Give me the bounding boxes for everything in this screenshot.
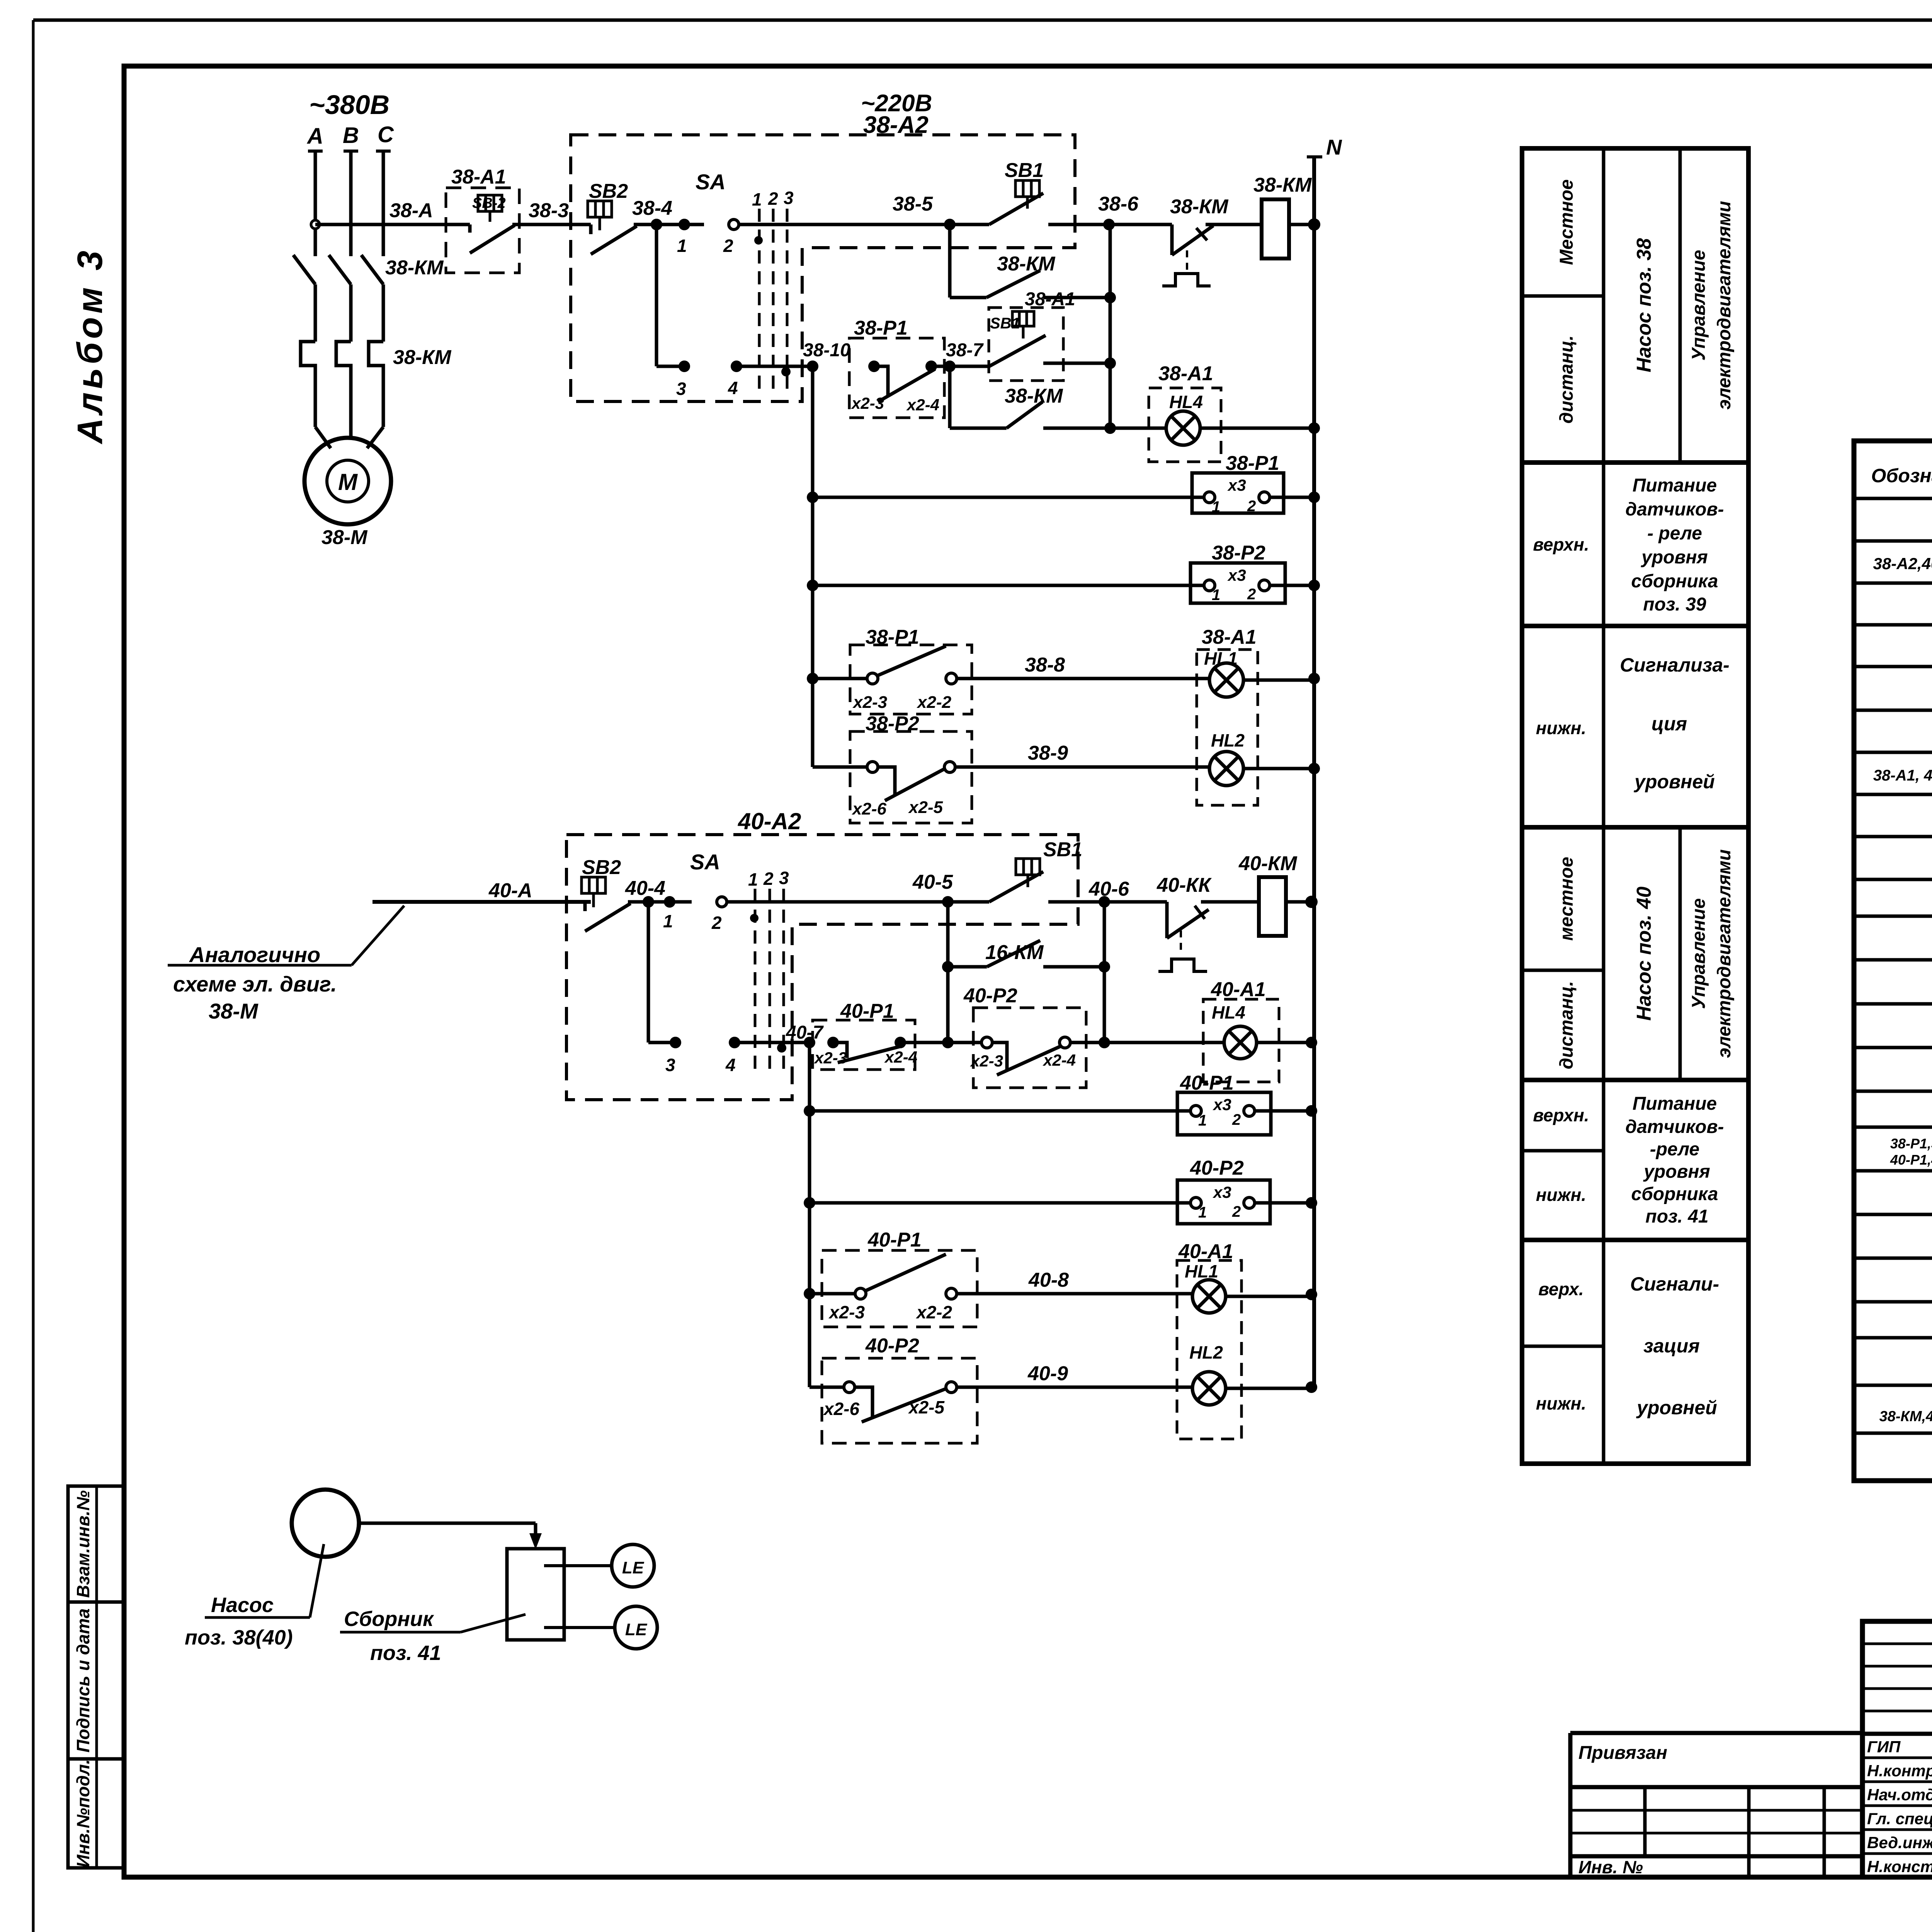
svg-text:- реле: - реле bbox=[1647, 523, 1702, 544]
level relay contact 40-P1 (signal row 40-8) bbox=[804, 1229, 977, 1327]
album label Альбом 3 bbox=[70, 247, 110, 444]
svg-text:В: В bbox=[343, 123, 359, 148]
svg-text:38-КМ: 38-КМ bbox=[393, 346, 452, 369]
svg-text:40-5: 40-5 bbox=[912, 871, 953, 893]
svg-text:верх.: верх. bbox=[1538, 1279, 1584, 1299]
svg-text:1: 1 bbox=[1198, 1204, 1207, 1221]
parts row Пост управления ПКУ 15-21,131-54У2 bbox=[1873, 552, 1932, 573]
svg-text:40-6: 40-6 bbox=[1088, 878, 1129, 900]
function table row: Питание датчиков-реле уровня сборника поз.39 bbox=[1533, 475, 1724, 615]
phase B wire bbox=[349, 151, 353, 256]
wire 38-A bbox=[315, 199, 446, 224]
svg-text:уровня: уровня bbox=[1641, 547, 1708, 568]
svg-text:датчиков-: датчиков- bbox=[1626, 499, 1724, 520]
lamp HL2 (40) bbox=[1189, 1342, 1317, 1405]
svg-text:x2-3: x2-3 bbox=[828, 1302, 865, 1322]
pushbutton SB1 (start) bbox=[950, 159, 1109, 224]
aux contact 38-KM (lamp circuit) bbox=[950, 366, 1116, 434]
svg-text:40-9: 40-9 bbox=[1027, 1362, 1068, 1385]
node 40-6 bbox=[1088, 878, 1129, 908]
function table row: Сигнализация уровней (40) bbox=[1522, 1273, 1719, 1418]
svg-text:3: 3 bbox=[784, 188, 794, 208]
svg-text:уровня: уровня bbox=[1643, 1162, 1710, 1182]
svg-text:схеме эл. двиг.: схеме эл. двиг. bbox=[173, 972, 337, 996]
svg-text:2: 2 bbox=[768, 189, 778, 209]
control box 40-A2 (L-shape dashed) bbox=[566, 808, 1078, 1100]
title block signatures bbox=[1867, 1738, 1932, 1876]
svg-text:38-Р1: 38-Р1 bbox=[854, 317, 908, 339]
pump circle bbox=[292, 1490, 359, 1557]
contactor 38-KM main contacts bbox=[293, 255, 444, 342]
parts row Датчик-реле уровня РОС101-011 bbox=[1890, 1136, 1932, 1168]
svg-text:LE: LE bbox=[622, 1558, 645, 1577]
lamp box 38-A1 (HL1,HL2) bbox=[1197, 626, 1258, 805]
svg-text:40-Р2: 40-Р2 bbox=[963, 985, 1017, 1007]
svg-text:Сборник: Сборник bbox=[344, 1607, 434, 1631]
svg-text:x2-3: x2-3 bbox=[814, 1049, 847, 1067]
contactor coil 40-KM bbox=[1238, 852, 1318, 936]
svg-text:2: 2 bbox=[1247, 498, 1256, 515]
svg-text:дистанц.: дистанц. bbox=[1556, 981, 1577, 1069]
svg-text:нижн.: нижн. bbox=[1536, 1393, 1586, 1413]
svg-text:верхн.: верхн. bbox=[1533, 534, 1589, 554]
svg-text:уровней: уровней bbox=[1633, 771, 1715, 793]
svg-text:38-КМ: 38-КМ bbox=[385, 257, 444, 279]
svg-text:сборника: сборника bbox=[1631, 1184, 1718, 1204]
pushbutton SB-2 contact bbox=[446, 195, 519, 253]
svg-text:40-А1: 40-А1 bbox=[1211, 978, 1266, 1001]
svg-text:16-КМ: 16-КМ bbox=[985, 941, 1044, 964]
svg-text:Местное: Местное bbox=[1556, 179, 1577, 265]
svg-text:38-9: 38-9 bbox=[1028, 742, 1068, 764]
svg-text:Насос поз. 40: Насос поз. 40 bbox=[1633, 886, 1655, 1020]
svg-text:Насос поз. 38: Насос поз. 38 bbox=[1633, 238, 1655, 372]
svg-text:1: 1 bbox=[1212, 498, 1220, 515]
svg-text:x2-2: x2-2 bbox=[917, 693, 952, 712]
svg-text:Взам.инв.№: Взам.инв.№ bbox=[73, 1490, 93, 1598]
svg-text:ция: ция bbox=[1651, 713, 1687, 735]
parts row Пост управления ПКУ15-21,2,31-54У2 bbox=[1873, 763, 1932, 785]
svg-text:38-Р2: 38-Р2 bbox=[1212, 542, 1265, 564]
svg-text:38-А1: 38-А1 bbox=[1202, 626, 1257, 648]
svg-text:38-А1: 38-А1 bbox=[451, 166, 506, 188]
lamp box 40-A1 (HL1,HL2) bbox=[1177, 1240, 1242, 1439]
svg-text:Сигнализа-: Сигнализа- bbox=[1620, 654, 1730, 676]
svg-text:LE: LE bbox=[625, 1620, 648, 1639]
svg-text:Насос: Насос bbox=[211, 1594, 274, 1617]
node 38-10 bbox=[803, 340, 850, 372]
svg-text:А: А bbox=[306, 124, 323, 149]
level sensor LE lower bbox=[544, 1606, 657, 1649]
parts row Пускатель магнитный ПМЛ122002 bbox=[1879, 1401, 1932, 1425]
svg-text:SB2: SB2 bbox=[589, 180, 628, 202]
selector SA contact 3-4 branch bbox=[656, 224, 813, 399]
svg-text:Привязан: Привязан bbox=[1578, 1743, 1667, 1763]
svg-text:x2-6: x2-6 bbox=[852, 799, 887, 818]
svg-text:38-Р1: 38-Р1 bbox=[1226, 452, 1279, 474]
aux contact 38-KM self-hold bbox=[950, 224, 1116, 303]
svg-text:x2-2: x2-2 bbox=[915, 1302, 952, 1322]
svg-text:датчиков-: датчиков- bbox=[1626, 1117, 1724, 1137]
lamp HL2 (38) bbox=[1209, 730, 1320, 786]
node 38-6 bbox=[1098, 193, 1139, 230]
aux contact 16-KM bbox=[942, 902, 1110, 1043]
svg-text:40-Р2: 40-Р2 bbox=[1190, 1157, 1244, 1179]
title block frame bbox=[1862, 1621, 1932, 1877]
svg-text:х3: х3 bbox=[1213, 1095, 1231, 1114]
svg-text:40-4: 40-4 bbox=[625, 877, 665, 900]
function table row: Сигнализация уровней (38) bbox=[1536, 654, 1730, 793]
svg-text:зация: зация bbox=[1643, 1335, 1700, 1357]
svg-text:3: 3 bbox=[665, 1055, 675, 1075]
phase C wire bbox=[382, 151, 385, 256]
svg-text:поз. 41: поз. 41 bbox=[1645, 1206, 1708, 1227]
level relay contact 40-P2 (open circles) bbox=[948, 985, 1110, 1088]
svg-text:3: 3 bbox=[676, 379, 686, 399]
plug connector 40-P1 x3 bbox=[804, 1072, 1317, 1135]
svg-text:x2-4: x2-4 bbox=[1043, 1051, 1076, 1069]
svg-text:Управление: Управление bbox=[1689, 898, 1709, 1009]
svg-text:38-А1: 38-А1 bbox=[1158, 362, 1213, 385]
svg-text:х3: х3 bbox=[1213, 1183, 1231, 1201]
svg-text:38-А2: 38-А2 bbox=[863, 112, 929, 138]
svg-text:x2-4: x2-4 bbox=[906, 396, 939, 414]
svg-text:1: 1 bbox=[752, 189, 762, 209]
level sensor LE upper bbox=[544, 1544, 654, 1587]
svg-text:SB1: SB1 bbox=[1005, 159, 1044, 182]
svg-text:1: 1 bbox=[663, 911, 673, 931]
svg-text:дистанц.: дистанц. bbox=[1556, 335, 1577, 423]
tap node on phase A bbox=[311, 220, 320, 229]
svg-text:HL4: HL4 bbox=[1169, 392, 1203, 412]
node 38-7 bbox=[944, 340, 984, 372]
wire 38-4 with SA nodes bbox=[632, 197, 704, 256]
plug connector 38-P2 x3 bbox=[807, 542, 1320, 604]
wire 40-A bbox=[372, 879, 591, 902]
node 38-5 bbox=[893, 193, 956, 230]
left stamp box Подпись и дата bbox=[68, 1602, 124, 1759]
svg-text:1: 1 bbox=[748, 869, 758, 889]
svg-text:38-А: 38-А bbox=[389, 199, 433, 222]
svg-text:x2-6: x2-6 bbox=[823, 1399, 859, 1419]
svg-text:38-5: 38-5 bbox=[893, 193, 933, 215]
svg-text:М: М bbox=[338, 469, 358, 495]
svg-text:Альбом 3: Альбом 3 bbox=[70, 247, 110, 444]
level relay contact 40-P2 (signal row 40-9) bbox=[810, 1294, 977, 1443]
svg-text:Питание: Питание bbox=[1633, 475, 1717, 496]
svg-text:2: 2 bbox=[723, 236, 733, 256]
svg-text:x2-3: x2-3 bbox=[852, 693, 887, 712]
svg-text:местное: местное bbox=[1556, 857, 1577, 940]
svg-text:3: 3 bbox=[779, 868, 789, 888]
svg-text:4: 4 bbox=[725, 1055, 736, 1075]
svg-text:нижн.: нижн. bbox=[1536, 718, 1586, 738]
pushbutton SB1 (40 start) bbox=[948, 838, 1104, 902]
function table row: Насос поз.40 / Управление электродвигателями bbox=[1522, 827, 1735, 1080]
svg-text:электродвигателями: электродвигателями bbox=[1714, 201, 1735, 410]
svg-text:Инв.№подл.: Инв.№подл. bbox=[73, 1759, 93, 1867]
svg-text:SB2: SB2 bbox=[582, 856, 621, 879]
svg-text:x2-5: x2-5 bbox=[908, 1397, 945, 1417]
motor 38-M bbox=[304, 438, 391, 549]
wires converging to motor bbox=[315, 427, 383, 448]
svg-text:40-8: 40-8 bbox=[1028, 1269, 1069, 1291]
contactor coil 38-KM bbox=[1253, 174, 1314, 259]
thermal contact 38-KM bbox=[1109, 196, 1262, 286]
svg-text:38-3: 38-3 bbox=[529, 199, 569, 222]
svg-text:2: 2 bbox=[711, 913, 722, 933]
plug connector 38-P1 x3 bbox=[807, 452, 1320, 515]
collector tank поз.41 bbox=[507, 1549, 564, 1640]
lamp HL1 (40) bbox=[1185, 1261, 1317, 1313]
svg-text:Питание: Питание bbox=[1633, 1094, 1717, 1114]
svg-text:Вед.инж.: Вед.инж. bbox=[1867, 1833, 1932, 1852]
svg-text:38-6: 38-6 bbox=[1098, 193, 1139, 215]
svg-text:SB1: SB1 bbox=[990, 315, 1020, 332]
lamp HL4 (38) bbox=[1110, 362, 1320, 462]
svg-text:38-8: 38-8 bbox=[1025, 654, 1065, 676]
wire 40-4 with SA nodes bbox=[625, 877, 692, 931]
lamp HL4 (40) bbox=[1104, 978, 1317, 1082]
svg-text:x2-3: x2-3 bbox=[970, 1052, 1003, 1070]
svg-text:HL4: HL4 bbox=[1212, 1002, 1245, 1022]
svg-text:Инв. №: Инв. № bbox=[1578, 1857, 1643, 1877]
phase A wire bbox=[314, 151, 317, 256]
svg-text:HL2: HL2 bbox=[1189, 1342, 1223, 1362]
svg-text:38-7: 38-7 bbox=[946, 340, 984, 361]
svg-text:38-М: 38-М bbox=[321, 526, 368, 549]
neutral rail N bbox=[1307, 135, 1342, 1388]
lamp HL1 (38) bbox=[1204, 648, 1320, 697]
parts table frame bbox=[1854, 441, 1932, 1481]
svg-text:N: N bbox=[1326, 135, 1342, 159]
control station box 38-A1 (SB-2) bbox=[446, 166, 519, 273]
svg-text:40-КК: 40-КК bbox=[1156, 874, 1212, 896]
control box 38-A1 second (SB1 remote) bbox=[989, 289, 1075, 381]
svg-text:Гл. спец.: Гл. спец. bbox=[1867, 1810, 1932, 1828]
cable cores 1 2 3 (40) bbox=[748, 868, 789, 1072]
left stamp box Взам.инв.№ bbox=[68, 1486, 124, 1602]
thermal overload elements 38-KM bbox=[301, 342, 452, 427]
svg-text:2: 2 bbox=[763, 869, 774, 889]
phase labels A B C bbox=[306, 122, 394, 149]
svg-text:С: С bbox=[378, 122, 394, 147]
label Насос поз.38(40) bbox=[185, 1544, 324, 1649]
svg-text:поз. 38(40): поз. 38(40) bbox=[185, 1626, 293, 1649]
svg-text:Н.контр: Н.контр bbox=[1867, 1762, 1932, 1780]
label Сборник поз.41 bbox=[340, 1607, 526, 1665]
svg-text:38-КМ: 38-КМ bbox=[1005, 385, 1063, 407]
svg-text:2: 2 bbox=[1247, 586, 1256, 603]
svg-text:х3: х3 bbox=[1227, 476, 1246, 494]
svg-text:1: 1 bbox=[677, 236, 687, 256]
level relay contact 38-P1 (x2-3/x2-4) bbox=[849, 317, 950, 418]
svg-text:SB1: SB1 bbox=[1043, 838, 1082, 861]
svg-text:38-КМ,40-КМ: 38-КМ,40-КМ bbox=[1879, 1408, 1932, 1425]
svg-text:Н.констр.: Н.констр. bbox=[1867, 1857, 1932, 1876]
level relay contact 38-P2 (signal row 38-9) bbox=[813, 679, 972, 823]
selector SA contact 3-4 branch (40) bbox=[648, 902, 810, 1075]
right node rail (38) bbox=[1109, 224, 1112, 428]
svg-text:поз. 41: поз. 41 bbox=[370, 1641, 441, 1665]
supply label ~380В bbox=[309, 90, 389, 120]
svg-text:1: 1 bbox=[1212, 587, 1220, 604]
svg-text:ГИП: ГИП bbox=[1867, 1738, 1901, 1756]
svg-text:40-КМ: 40-КМ bbox=[1238, 852, 1298, 875]
selector SA contact 1-2 bbox=[696, 170, 950, 256]
svg-text:Обознач.: Обознач. bbox=[1871, 465, 1932, 486]
svg-text:40-А2: 40-А2 bbox=[738, 808, 801, 834]
parts table header bbox=[1871, 461, 1932, 486]
svg-text:40-А: 40-А bbox=[488, 879, 532, 902]
cable cores 1 2 3 bbox=[752, 188, 794, 395]
svg-text:Аналогично: Аналогично bbox=[189, 942, 320, 967]
wire 38-8 to lamp HL1 bbox=[957, 654, 1209, 679]
pushbutton SB2 (40 stop) bbox=[582, 856, 648, 931]
wire 38-3 bbox=[519, 199, 591, 224]
svg-text:Подпись и дата: Подпись и дата bbox=[73, 1609, 93, 1753]
svg-text:x2-5: x2-5 bbox=[908, 798, 943, 817]
svg-text:38-4: 38-4 bbox=[632, 197, 672, 219]
svg-text:38-КМ: 38-КМ bbox=[1170, 196, 1229, 218]
svg-text:40-Р2: 40-Р2 bbox=[865, 1335, 919, 1357]
svg-text:электродвигателями: электродвигателями bbox=[1714, 849, 1735, 1058]
phase terminal ticks bbox=[308, 150, 391, 153]
pipe wire to collector bbox=[359, 1523, 542, 1549]
function table row: Насос поз.38 / Управление электродвигателями bbox=[1522, 148, 1735, 463]
level relay contact 40-P1 (x2-3/x2-4) bbox=[813, 1000, 948, 1070]
left stamp box Инв.№подл. bbox=[68, 1759, 124, 1868]
right node rail (40) bbox=[1103, 902, 1106, 1043]
svg-text:38-Р1,38-Р2: 38-Р1,38-Р2 bbox=[1890, 1136, 1932, 1151]
wire 38-9 to lamp HL2 bbox=[955, 742, 1209, 767]
привязан table bbox=[1570, 1733, 1862, 1877]
function table frame bbox=[1522, 148, 1748, 1464]
svg-text:-реле: -реле bbox=[1650, 1139, 1700, 1160]
signal rail from node 40-7 bbox=[808, 1043, 811, 1387]
svg-text:x2-3: x2-3 bbox=[851, 394, 884, 412]
svg-text:нижн.: нижн. bbox=[1536, 1185, 1586, 1205]
svg-text:SA: SA bbox=[696, 170, 726, 194]
svg-text:38-М: 38-М bbox=[209, 999, 259, 1023]
svg-text:Нач.отд.: Нач.отд. bbox=[1867, 1786, 1932, 1804]
svg-text:сборника: сборника bbox=[1631, 571, 1718, 592]
svg-text:2: 2 bbox=[1232, 1203, 1241, 1220]
plug connector 40-P2 x3 bbox=[804, 1157, 1317, 1224]
svg-text:~380В: ~380В bbox=[309, 90, 389, 120]
svg-text:38-А1: 38-А1 bbox=[1025, 289, 1075, 310]
svg-text:HL2: HL2 bbox=[1211, 730, 1245, 750]
svg-text:1: 1 bbox=[1198, 1112, 1207, 1129]
pushbutton SB2 (stop) bbox=[588, 180, 656, 254]
svg-text:x2-4: x2-4 bbox=[884, 1048, 917, 1066]
svg-text:х3: х3 bbox=[1227, 566, 1246, 584]
wire 40-9 to lamp HL2 bbox=[957, 1362, 1192, 1387]
control box 38-A2 (L-shape dashed) bbox=[571, 90, 1075, 401]
svg-text:2: 2 bbox=[1232, 1111, 1241, 1128]
svg-text:4: 4 bbox=[728, 378, 738, 398]
level relay contact 38-P1 (signal row 38-8) bbox=[807, 626, 972, 714]
svg-text:SA: SA bbox=[690, 850, 720, 874]
function table row: Питание датчиков-реле уровня сборника поз.41 bbox=[1522, 1094, 1724, 1227]
svg-text:38-А2,40-А2: 38-А2,40-А2 bbox=[1873, 554, 1932, 573]
svg-text:HL1: HL1 bbox=[1185, 1261, 1218, 1281]
svg-text:уровней: уровней bbox=[1636, 1397, 1717, 1418]
svg-text:верхн.: верхн. bbox=[1533, 1105, 1589, 1125]
node 40-5 bbox=[912, 871, 954, 908]
svg-text:38-10: 38-10 bbox=[803, 340, 850, 361]
svg-text:40-Р1,40-Р2: 40-Р1,40-Р2 bbox=[1890, 1152, 1932, 1168]
svg-text:40-Р1: 40-Р1 bbox=[867, 1229, 922, 1251]
svg-text:Сигнали-: Сигнали- bbox=[1630, 1273, 1719, 1295]
thermal contact 40-KK bbox=[1104, 874, 1259, 971]
svg-text:поз. 39: поз. 39 bbox=[1643, 594, 1706, 615]
signal rail from node 38-10 bbox=[811, 366, 815, 767]
wire 40-8 to lamp HL1 bbox=[957, 1269, 1192, 1294]
pushbutton SB1 remote contact bbox=[950, 335, 1116, 369]
node at 40-5 rail bbox=[942, 1037, 954, 1048]
node 40-7 bbox=[786, 1022, 824, 1048]
svg-text:Управление: Управление bbox=[1689, 250, 1709, 361]
note Аналогично схеме эл. двиг. 38-М bbox=[168, 906, 404, 1023]
svg-text:38-КМ: 38-КМ bbox=[997, 253, 1056, 275]
selector SA contact 1-2 (40) bbox=[690, 850, 948, 933]
svg-text:38-КМ: 38-КМ bbox=[1253, 174, 1312, 196]
svg-text:38-А1, 40-А1: 38-А1, 40-А1 bbox=[1873, 767, 1932, 784]
